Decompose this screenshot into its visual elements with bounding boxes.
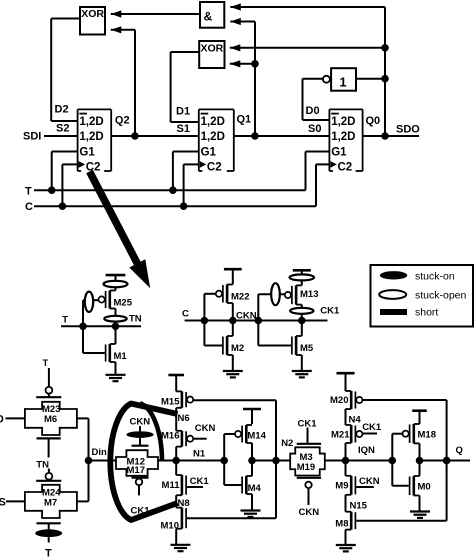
svg-text:M9: M9 — [335, 481, 348, 492]
svg-text:CKN: CKN — [195, 423, 216, 434]
svg-text:CK1: CK1 — [131, 506, 151, 517]
svg-text:C: C — [182, 309, 189, 320]
svg-text:CKN: CKN — [130, 417, 151, 428]
svg-text:G1: G1 — [79, 146, 95, 158]
svg-text:SDO: SDO — [396, 124, 420, 136]
svg-text:C: C — [25, 201, 33, 213]
svg-text:TN: TN — [129, 313, 142, 324]
svg-text:M13: M13 — [300, 289, 318, 300]
svg-text:CK1: CK1 — [362, 422, 382, 433]
svg-text:T: T — [25, 185, 32, 197]
svg-text:C2: C2 — [207, 162, 222, 174]
svg-text:M25: M25 — [114, 297, 133, 308]
svg-text:1,2D: 1,2D — [79, 131, 103, 143]
svg-text:SDI: SDI — [23, 131, 41, 143]
svg-text:M19: M19 — [297, 462, 315, 473]
svg-text:IQN: IQN — [358, 445, 375, 456]
svg-text:D0: D0 — [306, 105, 320, 117]
svg-text:G1: G1 — [331, 146, 347, 158]
svg-text:M14: M14 — [247, 430, 266, 441]
svg-text:M15: M15 — [161, 397, 180, 408]
svg-text:short: short — [415, 307, 438, 319]
svg-text:D2: D2 — [55, 104, 69, 116]
svg-text:M17: M17 — [127, 465, 145, 476]
svg-text:T: T — [62, 315, 68, 326]
svg-text:N15: N15 — [350, 501, 368, 512]
svg-text:M4: M4 — [248, 483, 262, 494]
svg-text:T: T — [45, 548, 52, 558]
svg-text:Q0: Q0 — [366, 115, 381, 127]
svg-text:S1: S1 — [177, 123, 190, 135]
svg-text:M21: M21 — [331, 430, 350, 441]
svg-text:M6: M6 — [44, 414, 57, 425]
svg-text:1,2D: 1,2D — [79, 116, 103, 128]
svg-text:1,2D: 1,2D — [201, 131, 225, 143]
svg-text:M20: M20 — [330, 395, 348, 406]
svg-text:CK1: CK1 — [190, 476, 210, 487]
svg-text:D: D — [0, 413, 4, 425]
svg-text:1,2D: 1,2D — [331, 116, 355, 128]
svg-text:T: T — [43, 358, 49, 369]
svg-text:XOR: XOR — [201, 43, 224, 55]
svg-text:M1: M1 — [114, 351, 128, 362]
svg-text:Q2: Q2 — [115, 115, 130, 127]
svg-text:1,2D: 1,2D — [201, 116, 225, 128]
svg-text:N2: N2 — [281, 438, 293, 449]
svg-text:S: S — [0, 496, 6, 508]
svg-text:CKN: CKN — [359, 476, 380, 487]
svg-text:M0: M0 — [418, 481, 431, 492]
svg-text:M16: M16 — [161, 430, 179, 441]
svg-text:1,2D: 1,2D — [331, 131, 355, 143]
svg-text:TN: TN — [36, 459, 49, 470]
svg-text:M5: M5 — [300, 343, 314, 354]
svg-text:S0: S0 — [308, 123, 321, 135]
svg-text:stuck-on: stuck-on — [415, 271, 455, 283]
svg-text:CK1: CK1 — [320, 306, 340, 317]
svg-text:CKN: CKN — [299, 507, 320, 518]
svg-text:S2: S2 — [56, 123, 69, 135]
svg-text:Q1: Q1 — [237, 114, 252, 126]
svg-text:M22: M22 — [231, 291, 249, 302]
svg-text:Din: Din — [92, 447, 108, 458]
svg-text:M8: M8 — [335, 518, 348, 529]
svg-text:M2: M2 — [231, 343, 244, 354]
svg-text:C2: C2 — [338, 162, 353, 174]
svg-text:M7: M7 — [44, 497, 57, 508]
svg-text:M18: M18 — [418, 429, 436, 440]
svg-text:N1: N1 — [193, 449, 206, 460]
svg-text:N6: N6 — [178, 413, 190, 424]
svg-text:&: & — [204, 10, 213, 24]
svg-text:Q: Q — [456, 445, 463, 456]
svg-text:D1: D1 — [176, 106, 190, 118]
svg-text:1: 1 — [339, 75, 346, 90]
svg-text:XOR: XOR — [81, 8, 104, 20]
svg-text:G1: G1 — [201, 146, 217, 158]
svg-text:M11: M11 — [162, 480, 181, 491]
svg-text:N4: N4 — [349, 415, 362, 426]
svg-text:stuck-open: stuck-open — [415, 290, 467, 302]
